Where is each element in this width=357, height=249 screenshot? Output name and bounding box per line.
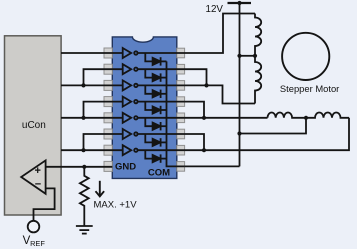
svg-text:12V: 12V: [206, 4, 224, 15]
wire output 7 row: [138, 149, 185, 151]
wire branch input 4: [84, 102, 123, 118]
inverter U1G: [123, 145, 138, 155]
node branch 2-3: [81, 83, 85, 87]
wire uCon out1 to input 1: [61, 52, 123, 54]
wire output7 to winding D right: [185, 118, 349, 150]
winding C coil: [268, 113, 307, 118]
diode D5: [145, 118, 166, 131]
wire 12V rail: [239, 3, 241, 166]
node rail tap CD: [237, 131, 241, 135]
inverter U1C: [123, 80, 138, 90]
wire tap winding CD center to rail: [240, 118, 307, 134]
right pin 1: [177, 48, 185, 58]
wire output 3 row: [138, 84, 185, 86]
wire op-amp plus input to GND pin: [46, 166, 113, 168]
wire output 5 row: [138, 117, 185, 119]
node branch 6-7: [81, 148, 85, 152]
inverter U1A: [123, 48, 138, 58]
wire output6 joins output7: [185, 134, 204, 150]
left pin 2: [104, 64, 112, 74]
wire uCon out3 to input 5: [61, 117, 123, 119]
wire branch input 2: [84, 69, 123, 85]
wire output 6 row: [138, 133, 185, 135]
right pin 4: [177, 97, 185, 107]
op-amp U2: [21, 160, 45, 193]
winding D coil: [306, 113, 349, 118]
diode D6: [145, 134, 166, 147]
wire branch input 6: [84, 134, 123, 150]
node out6-out7: [202, 148, 206, 152]
diode D2: [145, 69, 166, 82]
left pin 1: [104, 48, 112, 58]
left pin 4: [104, 97, 112, 107]
stepper motor circle: [282, 33, 329, 80]
right pin 3: [177, 81, 185, 91]
node winding AB center: [253, 54, 257, 58]
right pin 2: [177, 64, 185, 74]
wire output1 to winding A top: [185, 14, 255, 54]
node 12V terminal: [237, 1, 241, 5]
diode D3: [145, 85, 166, 98]
wire output2 joins output3: [185, 69, 207, 85]
uCon microcontroller box: [5, 36, 62, 215]
node out4-out5: [202, 116, 206, 120]
inverter U1F: [123, 129, 138, 139]
node winding CD center: [304, 116, 308, 120]
diode D4: [145, 102, 166, 115]
ground: [76, 226, 93, 234]
node rail tap AB: [237, 54, 241, 58]
svg-text:uCon: uCon: [22, 120, 46, 131]
svg-text:COM: COM: [148, 168, 170, 179]
svg-text:MAX. +1V: MAX. +1V: [94, 200, 138, 211]
left pin 3: [104, 80, 112, 90]
winding B coil: [255, 56, 261, 104]
right pin 6: [177, 129, 185, 139]
inverter U1D: [123, 97, 138, 107]
left pin 5: [104, 113, 112, 123]
left pin 8 GND: [104, 161, 112, 171]
wire output3 to winding B bottom: [185, 85, 255, 103]
IC U1 darlington array body with notch: [112, 37, 177, 179]
node out2-out3: [204, 83, 208, 87]
inverter U1B: [123, 64, 138, 74]
wire tap winding AB center to rail: [240, 55, 256, 57]
left pin 7: [104, 145, 112, 155]
right pin 7: [177, 145, 185, 155]
node sense resistor top: [82, 165, 86, 169]
wire op-amp minus input to Vref: [34, 188, 55, 220]
wire uCon out2 to input 3: [61, 84, 123, 86]
voltage arrow: [99, 181, 101, 196]
diode D7: [145, 150, 166, 163]
resistor R1: [80, 167, 89, 226]
winding A coil: [255, 14, 261, 56]
inverter U1E: [123, 113, 138, 123]
wire output 4 row: [138, 101, 185, 103]
wire output4 joins output5: [185, 102, 204, 118]
svg-text:−: −: [35, 179, 41, 191]
COM rail inside IC: [167, 61, 185, 166]
wire COM pin to 12V rail: [185, 165, 240, 167]
wire uCon out4 to input 7: [61, 149, 123, 151]
wire output 1 row: [138, 52, 185, 54]
Vref source circle: [28, 221, 40, 233]
svg-text:GND: GND: [115, 162, 136, 173]
node branch 4-5: [81, 116, 85, 120]
diode D1: [145, 53, 166, 66]
svg-text:Stepper Motor: Stepper Motor: [280, 83, 339, 94]
left pin 6: [104, 129, 112, 139]
wire output 2 row: [138, 68, 185, 70]
wire output5 to winding C left: [185, 117, 268, 119]
right pin 8 COM: [177, 162, 185, 172]
svg-text:+: +: [35, 165, 41, 177]
12V supply terminal: [228, 2, 252, 4]
svg-text:REF: REF: [30, 239, 45, 248]
right pin 5: [177, 113, 185, 123]
